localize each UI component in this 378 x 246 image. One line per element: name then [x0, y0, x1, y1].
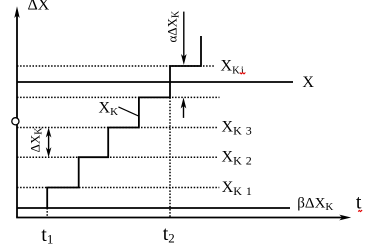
solid level line beta-delta-Xk: [17, 207, 290, 209]
svg-text:XK2: XK2: [222, 149, 252, 168]
red underline below t: [358, 210, 362, 211]
svg-text:ΔX: ΔX: [28, 0, 50, 14]
svg-text:XK1: XK1: [222, 179, 252, 198]
dotted level line X_K2: [17, 156, 217, 158]
svg-text:αΔXK: αΔXK: [165, 10, 182, 43]
t2 dotted marker: [169, 97, 171, 217]
dimension arrow alpha upper (down arrow to X_Ki line): [181, 12, 187, 65]
node circle on y-axis: [12, 118, 19, 125]
svg-text:XK3: XK3: [222, 119, 252, 138]
t1 dotted marker: [46, 208, 48, 218]
svg-text:XK: XK: [99, 99, 119, 118]
svg-text:t1: t1: [41, 224, 53, 246]
y-axis: [14, 6, 19, 217]
dotted level line X_K1: [17, 187, 219, 189]
svg-text:βΔXK: βΔXK: [297, 196, 333, 214]
solid level line X: [17, 81, 293, 83]
dotted level line X_Ki: [17, 65, 215, 67]
leader line from label Xk to staircase: [118, 107, 138, 116]
dotted level line X_K3: [17, 127, 217, 129]
red underline below i of X_Ki: [240, 73, 246, 74]
x-axis: [16, 215, 351, 221]
dotted level line below X: [17, 96, 220, 98]
dimension arrow alpha lower (up arrow to dotted line): [181, 98, 187, 118]
svg-text:t2: t2: [163, 223, 175, 246]
svg-text:ΔXK: ΔXK: [28, 127, 45, 153]
staircase curve Xk: [47, 36, 201, 208]
svg-text:X: X: [302, 74, 314, 91]
dimension double arrow delta-Xk: [46, 128, 52, 158]
